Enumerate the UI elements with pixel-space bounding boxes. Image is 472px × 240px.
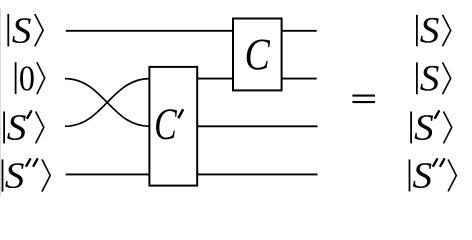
- wire q1 (|S> rail, full span): [66, 30, 317, 32]
- gate box C' (on q2,q3,q4): [149, 67, 197, 186]
- wire q2 segment from C' to output: [190, 78, 317, 80]
- gate box C (on q1,q2): [233, 19, 282, 91]
- wire q4 (|S''> rail, full span): [66, 173, 318, 175]
- ket |S''> output on q4: [410, 159, 457, 191]
- page left edge artifact: [0, 8, 2, 196]
- ket |S> input on q1: [8, 14, 43, 46]
- wire q2 swap curve (|0> crossing down into C'): [65, 79, 149, 127]
- ket |S> output on q2: [417, 62, 451, 94]
- ket |0> input on q2: [16, 62, 45, 94]
- ket |S> output on q1: [417, 15, 451, 47]
- wire q3 segment from C' to output: [190, 125, 318, 127]
- equals sign: [352, 96, 375, 103]
- gate label C: [247, 40, 270, 70]
- ket |S'> input on q3: [4, 111, 44, 143]
- ket |S'> output on q3: [411, 111, 452, 143]
- ket |S''> input on q4: [3, 159, 51, 191]
- gate label C': [156, 109, 183, 139]
- wire q3 swap curve (|S'> crossing up into C'): [65, 79, 149, 127]
